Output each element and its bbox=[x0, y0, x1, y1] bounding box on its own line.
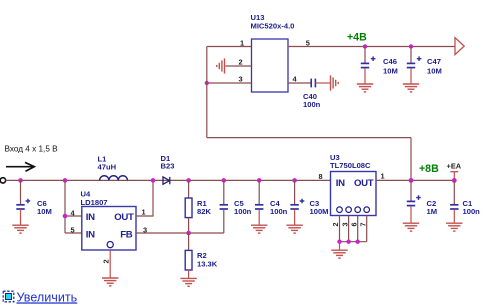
ground at C6 bbox=[12, 225, 28, 233]
svg-text:2: 2 bbox=[239, 58, 243, 67]
svg-text:+EA: +EA bbox=[447, 161, 462, 170]
resistor R2 bbox=[185, 233, 192, 278]
junction at U4 input tap bbox=[63, 178, 68, 183]
wire pin1 U13 bbox=[207, 46, 252, 48]
svg-text:100n: 100n bbox=[463, 207, 481, 216]
svg-text:1M: 1M bbox=[427, 207, 438, 216]
svg-text:10M: 10M bbox=[427, 67, 442, 76]
svg-text:100M: 100M bbox=[310, 207, 329, 216]
capacitor C46 (polarized) bbox=[361, 47, 376, 84]
ground at C40 (rotated, points right) bbox=[331, 75, 339, 90]
wire U4 pin2 to ground bbox=[109, 250, 111, 278]
svg-text:8: 8 bbox=[319, 172, 323, 181]
junction at C47 bbox=[409, 44, 413, 48]
wire U4 FB to divider bbox=[136, 232, 224, 234]
junction at pin1/pin3 feed bbox=[205, 81, 209, 85]
U4 pin2 inversion circle bbox=[107, 242, 113, 248]
input terminal circle bbox=[0, 178, 5, 183]
wire U4 input vertical bbox=[64, 180, 66, 233]
svg-text:OUT: OUT bbox=[354, 178, 374, 189]
input annotation arrow bbox=[6, 162, 34, 171]
ground at C1 bbox=[446, 223, 462, 231]
junction at FB/R1/R2 bbox=[186, 231, 191, 236]
svg-text:1: 1 bbox=[240, 38, 244, 47]
capacitor C6 (polarized) bbox=[16, 180, 30, 224]
inductor L1 bbox=[100, 176, 128, 181]
svg-text:TL750L08C: TL750L08C bbox=[330, 161, 371, 170]
wire U4 pin5 bbox=[65, 232, 82, 234]
wire pin2 U13 bbox=[226, 65, 252, 67]
junction at C1 bbox=[452, 178, 457, 183]
output port arrow (+4B) bbox=[455, 38, 464, 55]
wire C40 to ground bbox=[315, 82, 330, 84]
svg-text:5: 5 bbox=[71, 225, 75, 234]
wire input rail bbox=[6, 179, 331, 181]
svg-text:MIC520x-4.0: MIC520x-4.0 bbox=[251, 22, 295, 31]
capacitor C3 (polarized) bbox=[290, 180, 304, 224]
svg-text:100n: 100n bbox=[234, 207, 252, 216]
ground at U13 pin2 (rotated, points left) bbox=[217, 58, 225, 73]
svg-text:FB: FB bbox=[120, 230, 133, 241]
junction at U4 OUT / rail bbox=[151, 178, 156, 183]
svg-text:LD1807: LD1807 bbox=[81, 198, 108, 207]
svg-text:+8B: +8B bbox=[419, 163, 439, 175]
junction at C5 bbox=[222, 178, 227, 183]
svg-text:IN: IN bbox=[86, 212, 95, 223]
svg-text:47uH: 47uH bbox=[98, 162, 117, 171]
wire vertical feed from +8B (upper part) bbox=[206, 47, 208, 138]
svg-text:1: 1 bbox=[142, 208, 146, 217]
wire pin4 U13 bbox=[288, 82, 311, 84]
ground at C4 bbox=[251, 225, 267, 233]
capacitor C4 bbox=[255, 180, 263, 224]
U3 bottom pin circles bbox=[337, 207, 370, 213]
capacitor C40 plates bbox=[311, 79, 315, 88]
capacitor C2 (polarized) bbox=[407, 180, 421, 222]
wire feedback drop to +8B rail bbox=[410, 138, 412, 181]
svg-text:100n: 100n bbox=[303, 100, 321, 109]
svg-text:3: 3 bbox=[239, 75, 243, 84]
svg-text:4: 4 bbox=[293, 75, 298, 84]
svg-text:B23: B23 bbox=[161, 161, 175, 170]
wire bus to ground bbox=[339, 242, 341, 250]
svg-text:1: 1 bbox=[381, 172, 385, 181]
IC U3 body bbox=[331, 172, 377, 216]
wire U4 OUT up to rail bbox=[136, 180, 153, 216]
wire feedback horizontal bbox=[207, 137, 411, 139]
svg-text:3: 3 bbox=[340, 223, 349, 227]
svg-text:IN: IN bbox=[336, 178, 345, 189]
capacitor C47 (polarized) bbox=[407, 47, 422, 84]
svg-text:+4B: +4B bbox=[347, 31, 367, 43]
ground at C3 bbox=[286, 225, 302, 233]
junction at C3 bbox=[292, 178, 297, 183]
svg-text:2: 2 bbox=[102, 259, 111, 263]
ground at U4 pin2 bbox=[102, 278, 118, 286]
diode D1 bbox=[163, 177, 170, 184]
IC U4 body bbox=[82, 207, 136, 251]
capacitor C1 bbox=[450, 180, 458, 222]
svg-text:C47: C47 bbox=[427, 57, 441, 66]
junction at C4 bbox=[257, 178, 262, 183]
svg-text:13.3K: 13.3K bbox=[197, 259, 218, 268]
wire U3 OUT rail (+8B) bbox=[376, 179, 457, 181]
svg-text:7: 7 bbox=[358, 223, 367, 227]
capacitor C5 bbox=[220, 180, 228, 233]
junction at R1 top bbox=[186, 178, 191, 183]
svg-text:100n: 100n bbox=[270, 207, 288, 216]
IC U13 body bbox=[252, 39, 289, 92]
junctions on ground bus bbox=[337, 240, 341, 244]
svg-text:5: 5 bbox=[306, 38, 310, 47]
junction at U4 pin4 bbox=[63, 214, 68, 219]
svg-text:Увеличить: Увеличить bbox=[17, 290, 78, 304]
ground at C46 bbox=[357, 84, 373, 92]
svg-text:6: 6 bbox=[349, 223, 358, 227]
junction at C46 bbox=[363, 44, 367, 48]
zoom link icon bbox=[3, 291, 14, 302]
svg-text:C46: C46 bbox=[383, 57, 397, 66]
wire pin3 U13 bbox=[207, 82, 252, 84]
ground at C2 bbox=[403, 223, 419, 231]
ground at U3 bbox=[331, 250, 347, 258]
svg-text:82K: 82K bbox=[197, 207, 211, 216]
wire pin5 U13 to output arrow (+4B rail) bbox=[288, 46, 455, 48]
svg-text:2: 2 bbox=[331, 223, 340, 227]
junction at C2 / feedback bbox=[409, 178, 414, 183]
svg-text:IN: IN bbox=[86, 230, 95, 241]
svg-text:10M: 10M bbox=[37, 207, 52, 216]
svg-text:Вход 4 х 1,5 В: Вход 4 х 1,5 В bbox=[5, 144, 59, 153]
ground at R2 bbox=[180, 278, 196, 286]
wire U4 pin4 bbox=[65, 215, 82, 217]
junction at C6 bbox=[18, 178, 23, 183]
ground at C47 bbox=[403, 84, 419, 92]
svg-text:10M: 10M bbox=[383, 67, 398, 76]
svg-text:OUT: OUT bbox=[114, 212, 134, 223]
resistor R1 bbox=[185, 180, 192, 233]
wires U3 bottom pins to bus bbox=[340, 216, 367, 242]
